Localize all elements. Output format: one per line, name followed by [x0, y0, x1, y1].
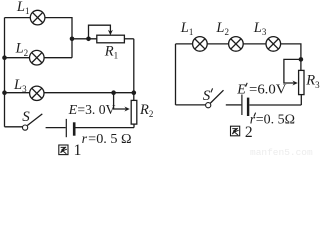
- wire: R2 bottom to bottom row: [133, 124, 135, 128]
- resistor R2 body: [131, 100, 137, 124]
- resistor R1 body: [97, 35, 125, 43]
- battery E' plate thin long (positive): [241, 95, 243, 116]
- svg-text:1: 1: [74, 142, 82, 158]
- R3 wiper arrowhead: [292, 81, 297, 86]
- svg-text:R3: R3: [305, 73, 320, 90]
- prime tick of S': [211, 88, 213, 92]
- svg-text:E=6.0V: E=6.0V: [236, 82, 286, 97]
- wire: circuit1 top row left of L1: [5, 17, 31, 19]
- wire: circuit2 bottom row right of battery: [249, 104, 301, 106]
- battery E' plate thick (negative): [247, 98, 249, 116]
- wire: L2 row right: [44, 57, 72, 59]
- svg-text:S: S: [203, 88, 211, 104]
- svg-text:L1: L1: [180, 20, 194, 37]
- svg-text:L2: L2: [215, 20, 229, 37]
- switch S' blade: [210, 90, 223, 103]
- R2 wiper arrowhead: [124, 107, 129, 112]
- R1 wiper arrowhead: [108, 30, 113, 35]
- wire: R1 to right rail: [124, 38, 133, 40]
- node junction at x88.5/R1 row: [86, 37, 91, 42]
- wire: L3 to right corner (circuit2): [281, 44, 301, 71]
- glyph tu (figure) for circuit 2: [231, 126, 240, 136]
- switch S' pivot circle: [206, 103, 211, 108]
- wire: battery to switch: [46, 127, 66, 129]
- prime tick of E': [246, 83, 248, 87]
- lamp L3 (circuit 2): [266, 37, 281, 52]
- wire: L3 row right to right rail: [44, 92, 134, 94]
- wire: R2 wiper drop and arrow shaft: [114, 93, 128, 109]
- svg-text:r=0. 5 Ω: r=0. 5 Ω: [82, 132, 132, 147]
- svg-text:L3: L3: [13, 77, 27, 94]
- lamp L1 (circuit 1): [30, 10, 45, 25]
- wire: R3 bottom to bottom row: [300, 95, 302, 105]
- switch S blade: [27, 114, 42, 126]
- wire: L2-L3 (circuit2): [243, 43, 266, 45]
- wire: circuit1 left rail: [4, 18, 6, 127]
- wire: L1 to right corner: [45, 18, 72, 58]
- node junction L3 row / left rail: [2, 90, 7, 95]
- svg-text:L3: L3: [253, 20, 267, 37]
- wire: R3 wiper loop: [284, 59, 301, 83]
- svg-text:L2: L2: [15, 41, 29, 58]
- node junction R3 tap on right rail: [299, 57, 304, 62]
- svg-text:r=0. 5Ω: r=0. 5Ω: [250, 113, 295, 128]
- lamp L2 (circuit 1): [30, 50, 45, 65]
- wire: R1 branch row: [72, 38, 97, 40]
- wire: L3 row left: [5, 92, 30, 94]
- prime tick of r': [254, 113, 256, 117]
- wire: circuit2 bottom left stub: [176, 104, 206, 106]
- wire: L1-L2 (circuit2): [207, 43, 228, 45]
- lamp L1 (circuit 2): [193, 37, 208, 52]
- svg-text:E=3. 0V: E=3. 0V: [68, 103, 116, 118]
- wire: circuit2 top row left of L1: [176, 43, 193, 45]
- lamp L2 (circuit 2): [229, 37, 244, 52]
- wire: battery to switch (circuit2): [226, 104, 242, 106]
- resistor R3 body: [299, 70, 304, 94]
- battery E plate thin long (positive): [65, 119, 67, 137]
- node junction right rail / L3 row: [132, 90, 137, 95]
- svg-text:2: 2: [245, 124, 253, 141]
- svg-text:R2: R2: [139, 102, 153, 119]
- wire: circuit1 bottom row right of battery: [75, 127, 134, 129]
- node junction at x72/R1 row: [70, 37, 75, 42]
- switch S pivot circle: [23, 125, 28, 130]
- glyph tu (figure) for circuit 1: [59, 145, 68, 155]
- node junction L2 row / left rail: [2, 55, 7, 60]
- lamp L3 (circuit 1): [30, 86, 44, 100]
- svg-text:L1: L1: [16, 0, 30, 16]
- svg-text:S: S: [22, 109, 30, 125]
- wire: circuit2 left rail: [175, 44, 177, 105]
- node junction R2 wiper tap: [111, 90, 116, 95]
- wire: L2 row left: [5, 57, 30, 59]
- svg-text:R1: R1: [104, 43, 118, 60]
- wire: circuit1 right rail down to R2: [133, 39, 135, 101]
- svg-text:manfen5.com: manfen5.com: [250, 147, 313, 158]
- wire: circuit1 bottom left stub to switch: [5, 126, 23, 128]
- battery E plate thick (negative): [73, 122, 76, 135]
- wire: R1 wiper short loop: [89, 25, 111, 39]
